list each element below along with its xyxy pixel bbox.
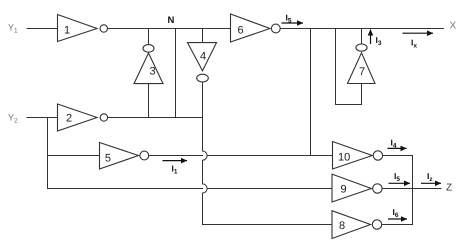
current arrow Ix (toward X) [403,32,434,34]
wire inverter 4 output vertical with crossover hops, then right to inverter 8 input [203,82,333,224]
svg-text:Ix: Ix [411,38,417,50]
wire inverter 10 output to right column [383,155,413,157]
wire inverter 3 input down to inverter 2 output line [148,84,150,118]
wire inverter 9 output to Z junction [382,188,412,190]
svg-text:N: N [168,15,175,26]
inverter 5 [100,143,139,170]
current arrow I1 (after inverter 5) [163,160,188,162]
svg-text:I5: I5 [394,171,400,183]
svg-text:8: 8 [339,220,345,232]
wire resume after hop to inverter 9 input [207,188,332,190]
svg-text:Iz: Iz [427,171,433,183]
wire Y2 net to inverter 5 input [48,155,100,157]
inverter 9 [332,174,371,202]
current arrow I4 (after inverter 10) [388,147,407,149]
wire inverter 3 output bubble up to top rail [148,29,150,45]
wire top rail down to inverter 4 input [202,29,204,43]
current arrow I3 (up into X net) [370,30,372,45]
wire Y2 to inverter 2 input [27,117,57,119]
current arrow I6 (after inverter 8) [388,218,407,220]
current arrow I5b (after inverter 9) [389,182,411,184]
svg-text:I3: I3 [376,35,382,47]
svg-text:7: 7 [359,66,365,78]
wire inverter 2 output to vertical of inverter 4 net [108,117,203,119]
inverter 1 [58,15,98,42]
svg-text:3: 3 [150,66,156,78]
wire node N rail down to inverter 2 output line [175,29,177,118]
inverter 7 (points up) [348,53,376,84]
wire inverter 8 output to right column [382,224,413,226]
inverter 6 [231,14,271,42]
svg-text:I1: I1 [172,164,178,176]
svg-text:5: 5 [105,153,111,165]
wire top rail: inverter 1 output to inverter 6 input (node N) [107,28,230,30]
inverter 10 [333,142,373,170]
wire Y2 junction vertical down [47,118,49,189]
svg-text:1: 1 [64,25,70,37]
svg-text:10: 10 [338,152,350,164]
svg-text:2: 2 [66,113,72,125]
svg-text:9: 9 [341,184,347,196]
inverter 4 (points down) [188,43,217,71]
current arrow Iz (toward Z) [421,182,441,184]
wire X net down to inverter 10 input line [310,29,312,156]
svg-text:I4: I4 [391,138,397,150]
svg-text:Y1: Y1 [8,23,18,35]
wire Y2 net right toward inverter 9 input (up to hop) [48,188,203,190]
wire Z junction to Z terminal [413,188,442,190]
svg-text:I6: I6 [393,207,399,219]
wire inverter 5 output to hop [149,155,203,157]
svg-text:6: 6 [238,25,244,37]
inverter 3 (points up) [134,53,163,84]
inverter 2 [58,104,98,131]
svg-text:X: X [450,21,457,32]
wire right column vertical joining outputs [412,156,414,225]
wire resume after hop to inverter 10 input [207,155,332,157]
current arrow I5 (after inverter 6) [282,22,304,24]
wire X net feedback U loop to inverter 7 input base [336,29,362,105]
wire inverter 7 output bubble up to X net [361,29,363,45]
svg-text:Y2: Y2 [8,113,18,125]
wire X net: inverter 6 output to X terminal [280,28,443,30]
svg-text:Z: Z [446,183,452,194]
wire Y1 to inverter 1 input [27,28,57,30]
svg-text:4: 4 [200,51,206,63]
inverter 8 [332,211,371,239]
